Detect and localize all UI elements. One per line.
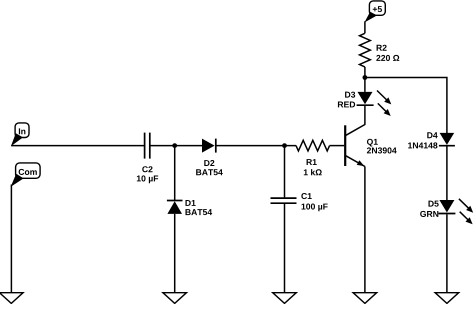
label D1 value <box>185 200 212 215</box>
wire R1 to Q1 base <box>330 145 345 147</box>
resistor R1 <box>296 140 330 151</box>
LED D5 <box>438 199 473 225</box>
LED D3 <box>357 91 392 117</box>
label D3 value <box>338 92 355 108</box>
wire D5 to ground <box>446 214 448 292</box>
capacitor C1 <box>271 146 297 293</box>
label R2 value <box>376 45 399 61</box>
resistor R2 <box>360 33 371 67</box>
wire In to C2 <box>11 145 144 147</box>
ground (Q1 emitter) <box>353 293 377 304</box>
label C1 value <box>301 193 327 211</box>
wire D2 to R1 <box>217 145 297 147</box>
label D4 value <box>408 132 438 148</box>
label D5 value <box>420 201 439 217</box>
label D2 value <box>196 160 223 175</box>
power flag +5 <box>364 1 385 23</box>
wire D3 to Q1 collector <box>364 105 366 125</box>
capacitor C2 <box>145 133 150 159</box>
wire D4 to D5 <box>446 147 448 201</box>
diode D4 <box>439 133 455 146</box>
label C2 value <box>137 166 158 183</box>
node junction collector/top <box>363 75 368 80</box>
ground (D5) <box>435 293 459 304</box>
terminal In flag <box>11 123 29 146</box>
ground (C1) <box>273 293 297 304</box>
diode D2 <box>202 139 216 153</box>
node junction at C1 branch <box>282 143 287 148</box>
diode D1 <box>167 146 183 293</box>
wire R2 to node <box>364 67 366 92</box>
ground (Com) <box>0 293 23 304</box>
wire Com to ground <box>10 185 12 293</box>
wire C2 to D2 <box>150 145 202 147</box>
node junction at D1 branch <box>172 143 177 148</box>
ground (D1) <box>163 293 187 304</box>
label Q1 value <box>367 139 397 154</box>
wire Q1 emitter to ground <box>364 167 366 293</box>
wire +5 to R2 <box>364 21 366 33</box>
terminal Com flag <box>11 163 40 187</box>
transistor Q1 <box>345 125 365 167</box>
wire node to D4 branch <box>365 78 447 134</box>
label R1 value <box>304 159 322 175</box>
